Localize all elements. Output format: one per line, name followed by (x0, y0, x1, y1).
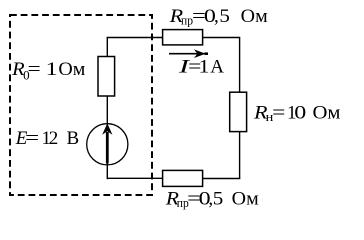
svg-text:В: В (67, 128, 80, 149)
resistor Rn load (230, 92, 247, 131)
resistor R0 (98, 57, 115, 97)
label Rpr top (168, 6, 267, 28)
svg-text:2: 2 (49, 128, 59, 149)
svg-text:5: 5 (219, 6, 230, 27)
EMF arrow shaft (106, 132, 109, 164)
label I = 1 A (177, 57, 224, 78)
svg-text:Ом: Ом (232, 189, 259, 210)
wire: top rail right segment (203, 37, 240, 39)
current arrow line (169, 53, 208, 55)
svg-text:Ом: Ом (58, 59, 85, 80)
svg-text:=: = (272, 103, 285, 124)
wire: R0 top to top rail (106, 38, 108, 57)
current arrow head (194, 49, 206, 58)
wire: right rail lower (239, 132, 241, 179)
dashed source boundary box (10, 15, 152, 195)
svg-text:=: = (28, 59, 41, 80)
source circle E (87, 124, 128, 165)
label Rn = 10 Om (253, 103, 341, 125)
resistor Rpr top (163, 30, 203, 45)
current arrow stub (205, 52, 209, 55)
svg-text:1: 1 (199, 57, 210, 78)
wire: bottom rail left segment (107, 177, 162, 179)
wire: source circle top to R0 bottom (106, 96, 108, 125)
resistor Rpr bottom (163, 170, 203, 186)
label Rpr bottom (165, 189, 259, 211)
svg-text:,: , (214, 6, 219, 27)
wire: top rail left segment (107, 37, 163, 39)
svg-text:0: 0 (294, 103, 306, 124)
label E = 12 V (15, 128, 79, 149)
svg-text:1: 1 (46, 59, 58, 80)
svg-text:Ом: Ом (313, 103, 341, 124)
svg-text:=: = (25, 128, 39, 149)
EMF arrow head (102, 123, 112, 135)
wire: bottom rail right segment (203, 178, 241, 180)
label R0 = 1 Om (11, 59, 85, 83)
svg-text:Ом: Ом (241, 6, 268, 27)
svg-text:А: А (210, 57, 224, 78)
wire: right rail upper (239, 37, 241, 92)
svg-text:5: 5 (213, 189, 224, 210)
wire: bottom rail up to source circle (106, 164, 108, 180)
